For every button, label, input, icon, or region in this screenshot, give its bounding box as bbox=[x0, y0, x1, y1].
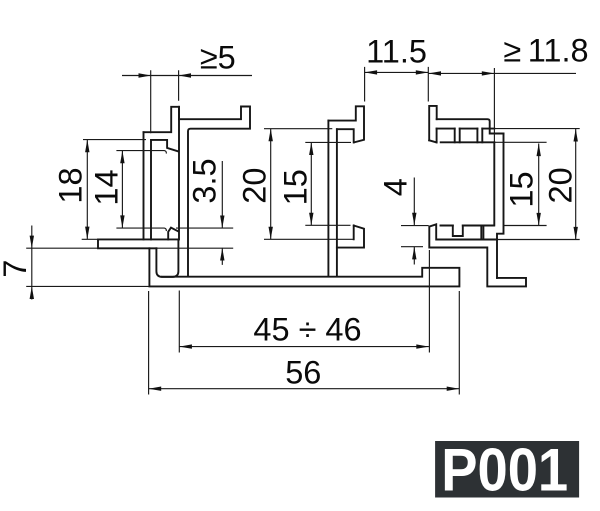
svg-text:15: 15 bbox=[278, 169, 314, 205]
svg-text:7: 7 bbox=[0, 260, 33, 278]
svg-text:20: 20 bbox=[237, 168, 273, 204]
svg-text:11.5: 11.5 bbox=[366, 34, 427, 70]
svg-text:45 ÷ 46: 45 ÷ 46 bbox=[253, 311, 361, 347]
svg-text:3.5: 3.5 bbox=[186, 158, 222, 203]
svg-text:≥5: ≥5 bbox=[200, 40, 236, 76]
svg-text:15: 15 bbox=[504, 171, 540, 207]
svg-text:P001: P001 bbox=[441, 437, 568, 504]
svg-text:4: 4 bbox=[377, 178, 413, 196]
svg-text:≥ 11.8: ≥ 11.8 bbox=[503, 33, 588, 69]
svg-text:18: 18 bbox=[52, 167, 88, 203]
svg-text:56: 56 bbox=[285, 355, 321, 391]
svg-text:20: 20 bbox=[542, 167, 578, 203]
svg-text:14: 14 bbox=[88, 169, 124, 205]
